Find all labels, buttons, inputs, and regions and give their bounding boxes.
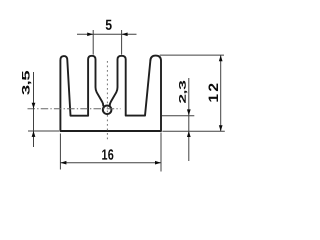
- dim 3,5: extension line bottom: [28, 130, 59, 132]
- horizontal dash-dot center line: [28, 108, 121, 110]
- dim 3,5: dimension line: [33, 72, 35, 147]
- shared bottom extension line: [162, 130, 224, 132]
- label 5: [106, 20, 112, 30]
- dim 16: arrows: [60, 161, 66, 165]
- dim 2,3: dimension line: [188, 78, 190, 161]
- dim 2,3: arrows: [187, 109, 191, 115]
- dim 12: extension line top: [160, 54, 224, 56]
- clip hole circle: [103, 106, 112, 115]
- dim 5: extension lines: [92, 30, 94, 55]
- dim 16: dimension line: [60, 162, 161, 164]
- dim 12: arrows: [219, 55, 223, 61]
- heatsink profile outline: [60, 56, 161, 131]
- vertical dotted center line: [106, 61, 108, 141]
- label 16: [102, 149, 113, 160]
- dim 5: dimension line: [77, 33, 137, 35]
- label 2,3: [179, 81, 187, 103]
- dim 3,5: arrows: [32, 103, 36, 109]
- label 3,5: [22, 71, 31, 95]
- dim 12: dimension line: [220, 55, 222, 131]
- dim 2,3: extension line (base top): [162, 115, 194, 117]
- label 12: [209, 84, 219, 102]
- dim 5: arrows: [87, 32, 93, 36]
- dim 16: extension lines: [59, 134, 61, 170]
